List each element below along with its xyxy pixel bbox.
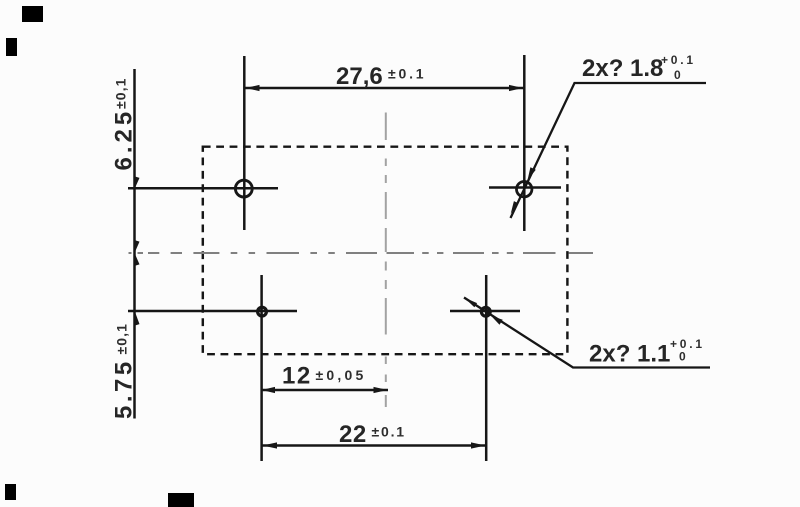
arrow right end (509, 85, 523, 91)
extension line left to top-left hole (128, 187, 278, 190)
arrow left end of 22 (263, 442, 278, 448)
horizontal center line (129, 252, 594, 254)
extension line left to bottom-left hole (128, 310, 297, 313)
hidden watermark square bottom-left (5, 484, 16, 500)
bottom-left hole circle (258, 307, 267, 316)
arrow right end of 22 (471, 442, 486, 448)
leader 2 arrowhead near hole (491, 316, 503, 325)
leader 1 arrowhead near hole (528, 167, 536, 180)
svg-text:2x? 1.1: 2x? 1.1 (589, 341, 670, 368)
top-left hole circle (235, 180, 252, 197)
bottom-left hole vertical extension (260, 275, 263, 461)
svg-text:±0,1: ±0,1 (114, 323, 130, 355)
svg-text:+0.1: +0.1 (661, 53, 696, 67)
svg-text:±0.1: ±0.1 (388, 66, 426, 82)
component outline dashed rectangle (203, 147, 568, 355)
svg-text:±0,1: ±0,1 (113, 77, 129, 109)
svg-text:0: 0 (674, 68, 681, 82)
svg-text:2x? 1.8: 2x? 1.8 (582, 55, 663, 82)
bottom-right hole crosshair horizontal (450, 310, 520, 313)
leader 1 tail arrowhead (511, 201, 519, 214)
leader 2 tail thickening (464, 298, 477, 308)
svg-text:27,6: 27,6 (336, 63, 383, 90)
hidden watermark square bottom-center (168, 493, 194, 507)
arrow left end of 12 (262, 387, 276, 393)
svg-text:12: 12 (282, 363, 312, 390)
top-right hole circle (517, 182, 532, 197)
svg-text:22: 22 (339, 421, 367, 448)
svg-text:6.25: 6.25 (111, 108, 138, 171)
svg-text:±0,05: ±0,05 (316, 367, 367, 383)
arrow at bottom hole level (134, 313, 139, 326)
vertical center line (385, 113, 387, 408)
svg-text:±0.1: ±0.1 (372, 424, 406, 440)
dimension line 22 (262, 444, 486, 447)
extension line above top-right hole (523, 55, 526, 231)
arrow right end of 12 (374, 387, 388, 393)
bottom-right hole vertical extension (485, 275, 488, 461)
arrow at top hole level (134, 176, 139, 187)
bottom-right hole circle (481, 307, 490, 316)
svg-text:0: 0 (679, 350, 686, 364)
top dimension line 27.6 (245, 87, 524, 90)
hidden watermark square top-left (22, 6, 43, 22)
arrow below center level (134, 255, 139, 267)
arrow left end (246, 85, 260, 91)
svg-text:5.75: 5.75 (111, 358, 138, 419)
hidden watermark square left (6, 38, 17, 56)
left vertical dimension line (133, 69, 136, 419)
top-right hole crosshair horizontal (489, 186, 561, 189)
leader line to bottom-right hole (464, 298, 710, 368)
dimension line 12 (261, 389, 388, 392)
extension line above top-left hole (243, 56, 246, 230)
arrow above center level (134, 240, 139, 252)
svg-text:+0.1: +0.1 (670, 337, 705, 351)
leader line to top-right hole (511, 83, 707, 218)
